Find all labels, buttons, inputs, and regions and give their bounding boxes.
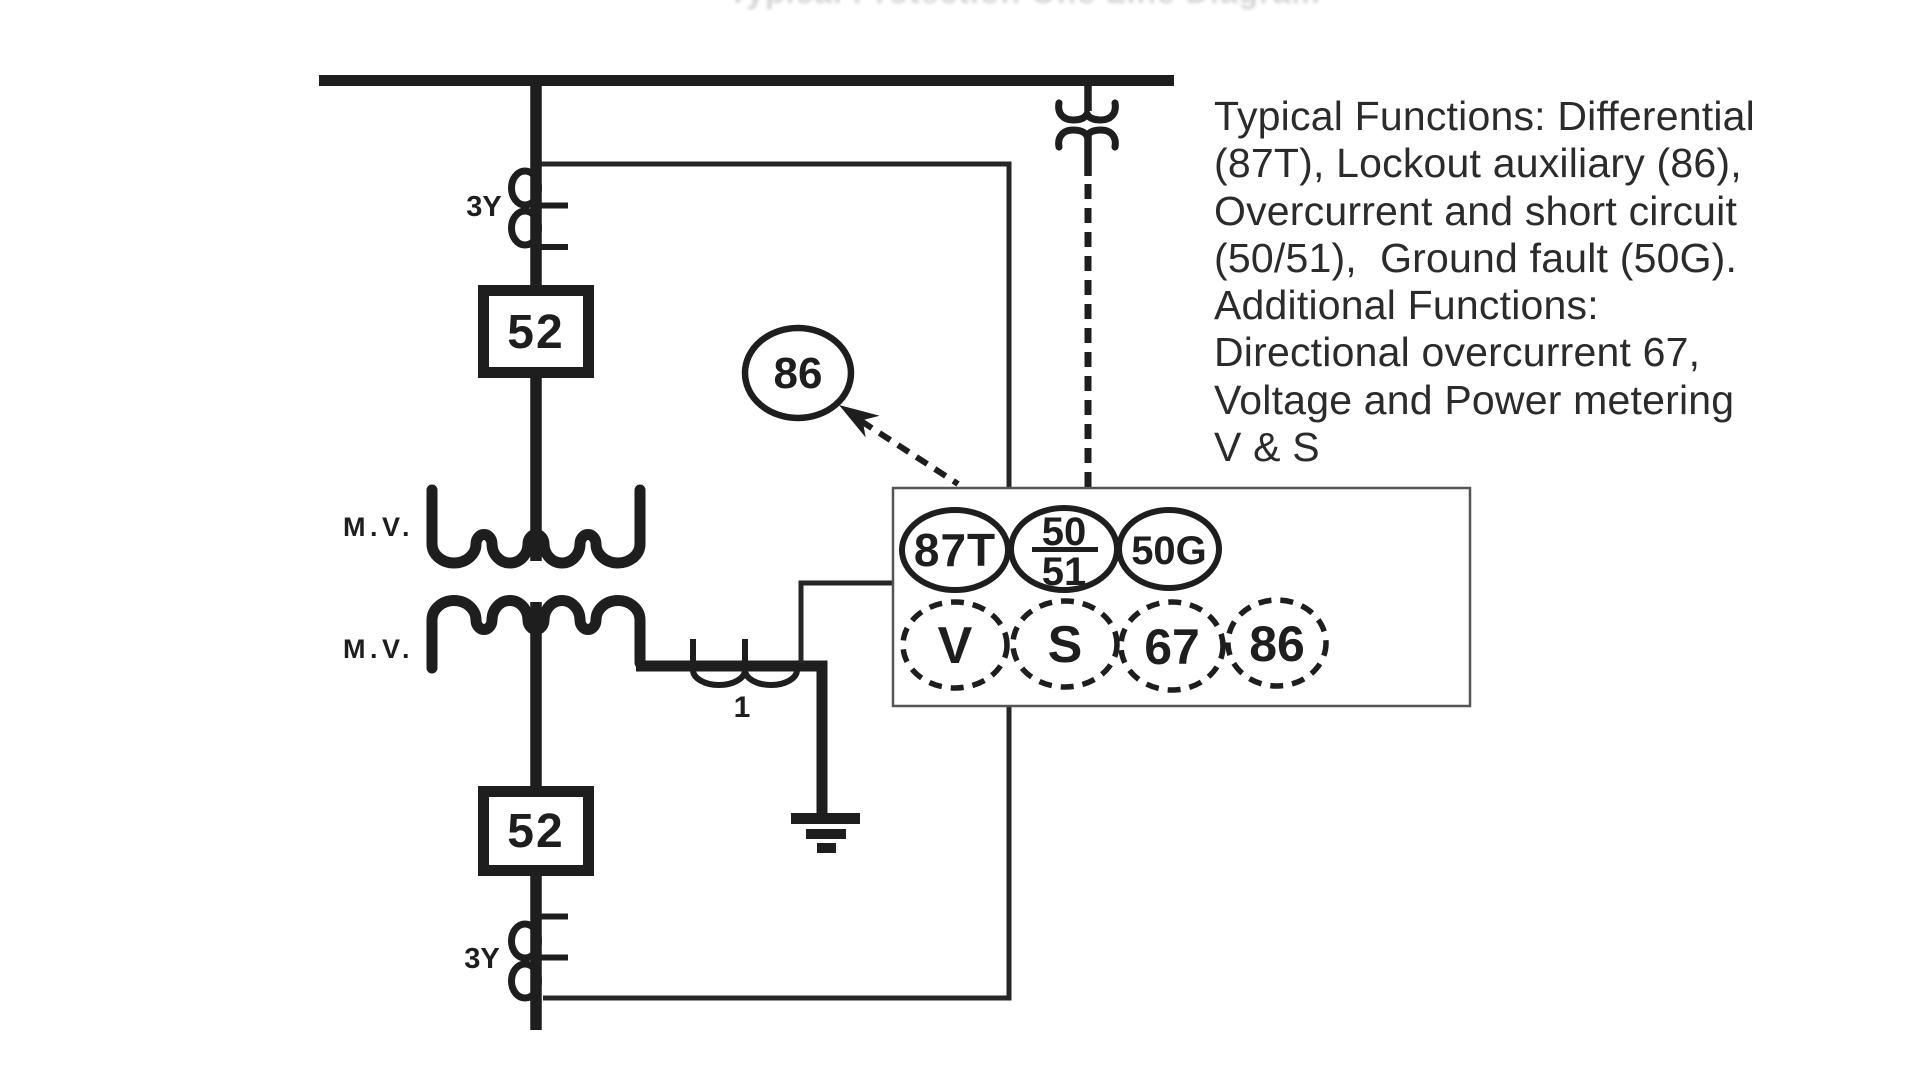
- CT 3Y bottom loops: [512, 917, 569, 999]
- svg-text:3Y: 3Y: [464, 943, 499, 975]
- bus bar: [319, 75, 1174, 86]
- relay function V: [903, 602, 1007, 688]
- arrowhead: [839, 405, 880, 438]
- wire neutral conductor to ground: [636, 666, 822, 815]
- svg-text:86: 86: [1249, 616, 1305, 672]
- wire CT1 secondary to relay: [801, 583, 893, 663]
- relay function 67: [1121, 602, 1223, 690]
- svg-text:M.V.: M.V.: [343, 634, 414, 664]
- svg-text:1: 1: [734, 691, 751, 724]
- relay box: [893, 488, 1470, 706]
- svg-text:S: S: [1048, 616, 1083, 674]
- CT 3Y top loops: [512, 171, 569, 247]
- svg-text:52: 52: [507, 306, 564, 359]
- relay function 87T: [902, 510, 1008, 590]
- label M.V. primary: [343, 512, 414, 542]
- ground symbol: [791, 819, 860, 849]
- relay function 86: [1228, 600, 1326, 686]
- svg-text:87T: 87T: [914, 524, 996, 576]
- disconnect hook upper: [1059, 103, 1116, 120]
- svg-text:86: 86: [774, 349, 823, 398]
- cropped header text remnant: [728, 0, 1368, 14]
- wire feeder lower: [530, 602, 542, 1030]
- label M.V. secondary: [343, 634, 414, 664]
- transformer T1 primary winding: [432, 490, 640, 563]
- CT 1 winding arcs: [693, 670, 797, 685]
- disconnect stem lower: [1084, 134, 1092, 176]
- svg-text:51: 51: [1042, 550, 1087, 594]
- label 3Y bottom: [464, 943, 499, 975]
- CT 1 ticks: [693, 639, 745, 663]
- breaker 52 upper: [484, 291, 589, 373]
- svg-text:M.V.: M.V.: [343, 512, 414, 542]
- dashed trip wire to 86: [861, 421, 958, 484]
- svg-text:V: V: [938, 617, 973, 675]
- wire CT secondary loop: [541, 164, 1009, 998]
- relay function S: [1013, 601, 1117, 687]
- svg-text:3Y: 3Y: [466, 191, 501, 223]
- lockout relay 86: [745, 328, 851, 418]
- svg-text:50G: 50G: [1131, 529, 1207, 573]
- disconnect stub upper: [1084, 84, 1092, 111]
- dashed wire to relay: [1085, 184, 1092, 488]
- relay function 50/51: [1011, 508, 1117, 594]
- annotation text: [1214, 93, 1814, 471]
- disconnect hook lower: [1059, 130, 1116, 147]
- transformer T1 secondary winding: [432, 601, 640, 669]
- svg-text:52: 52: [507, 805, 564, 858]
- wire feeder upper: [530, 80, 542, 561]
- breaker 52 lower: [484, 792, 589, 871]
- relay function 50G: [1119, 510, 1219, 588]
- label 3Y top: [466, 191, 501, 223]
- svg-text:67: 67: [1144, 619, 1200, 675]
- label 1: [734, 691, 751, 724]
